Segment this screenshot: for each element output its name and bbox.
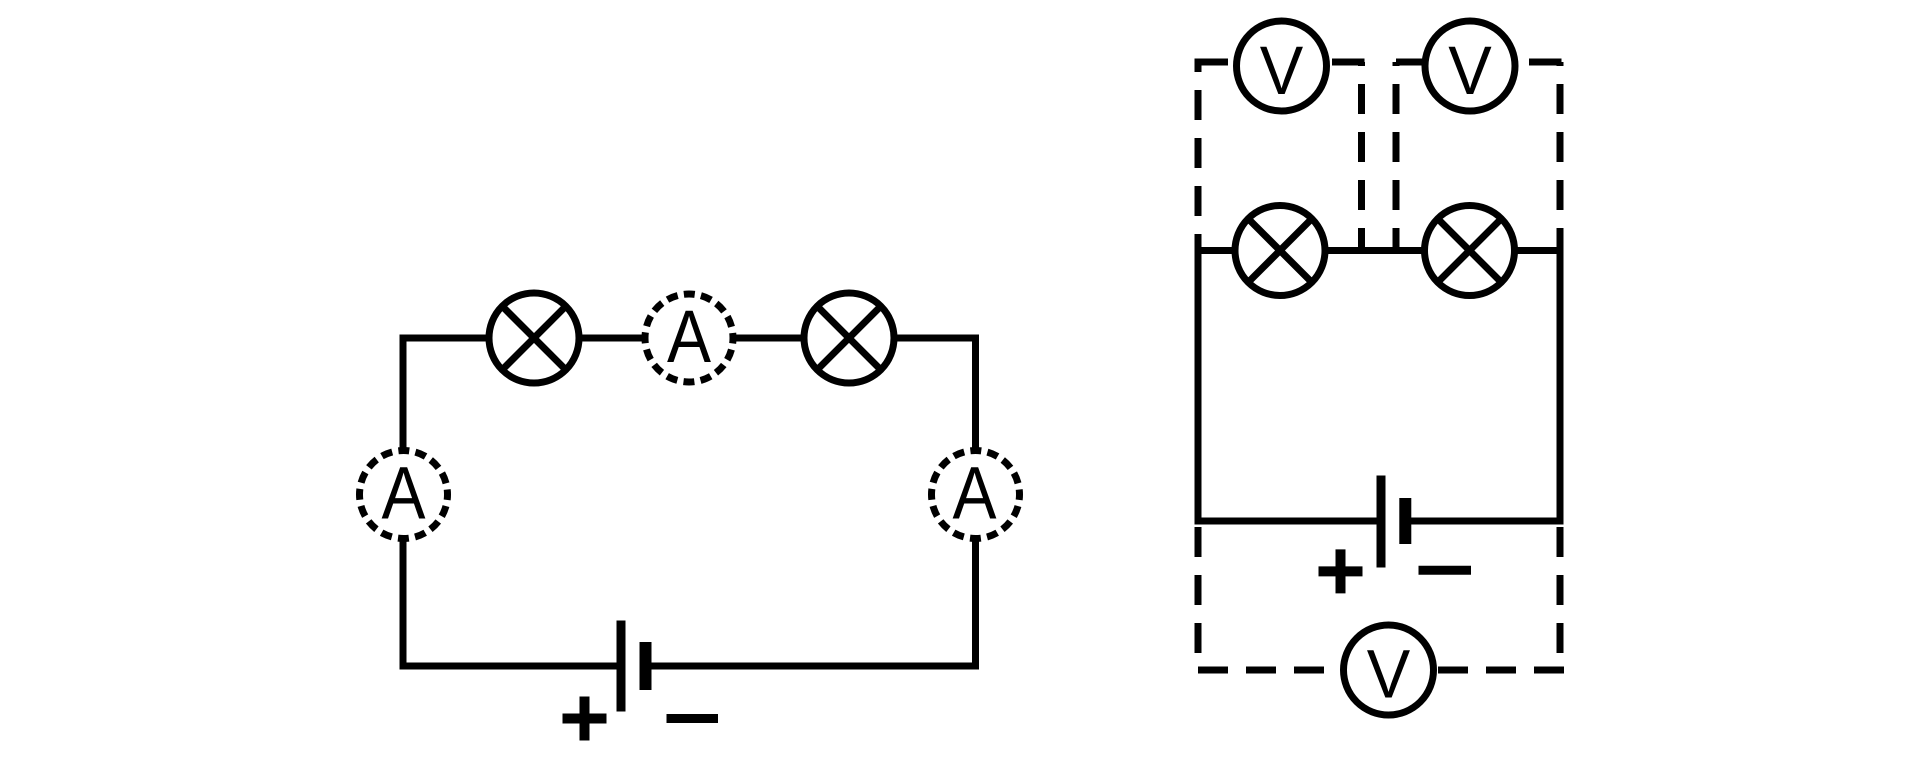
svg-text:A: A [382, 452, 427, 535]
svg-text:A: A [953, 452, 998, 535]
svg-text:V: V [1260, 32, 1304, 109]
svg-text:A: A [667, 295, 712, 378]
svg-text:V: V [1367, 636, 1411, 713]
svg-text:V: V [1448, 32, 1492, 109]
